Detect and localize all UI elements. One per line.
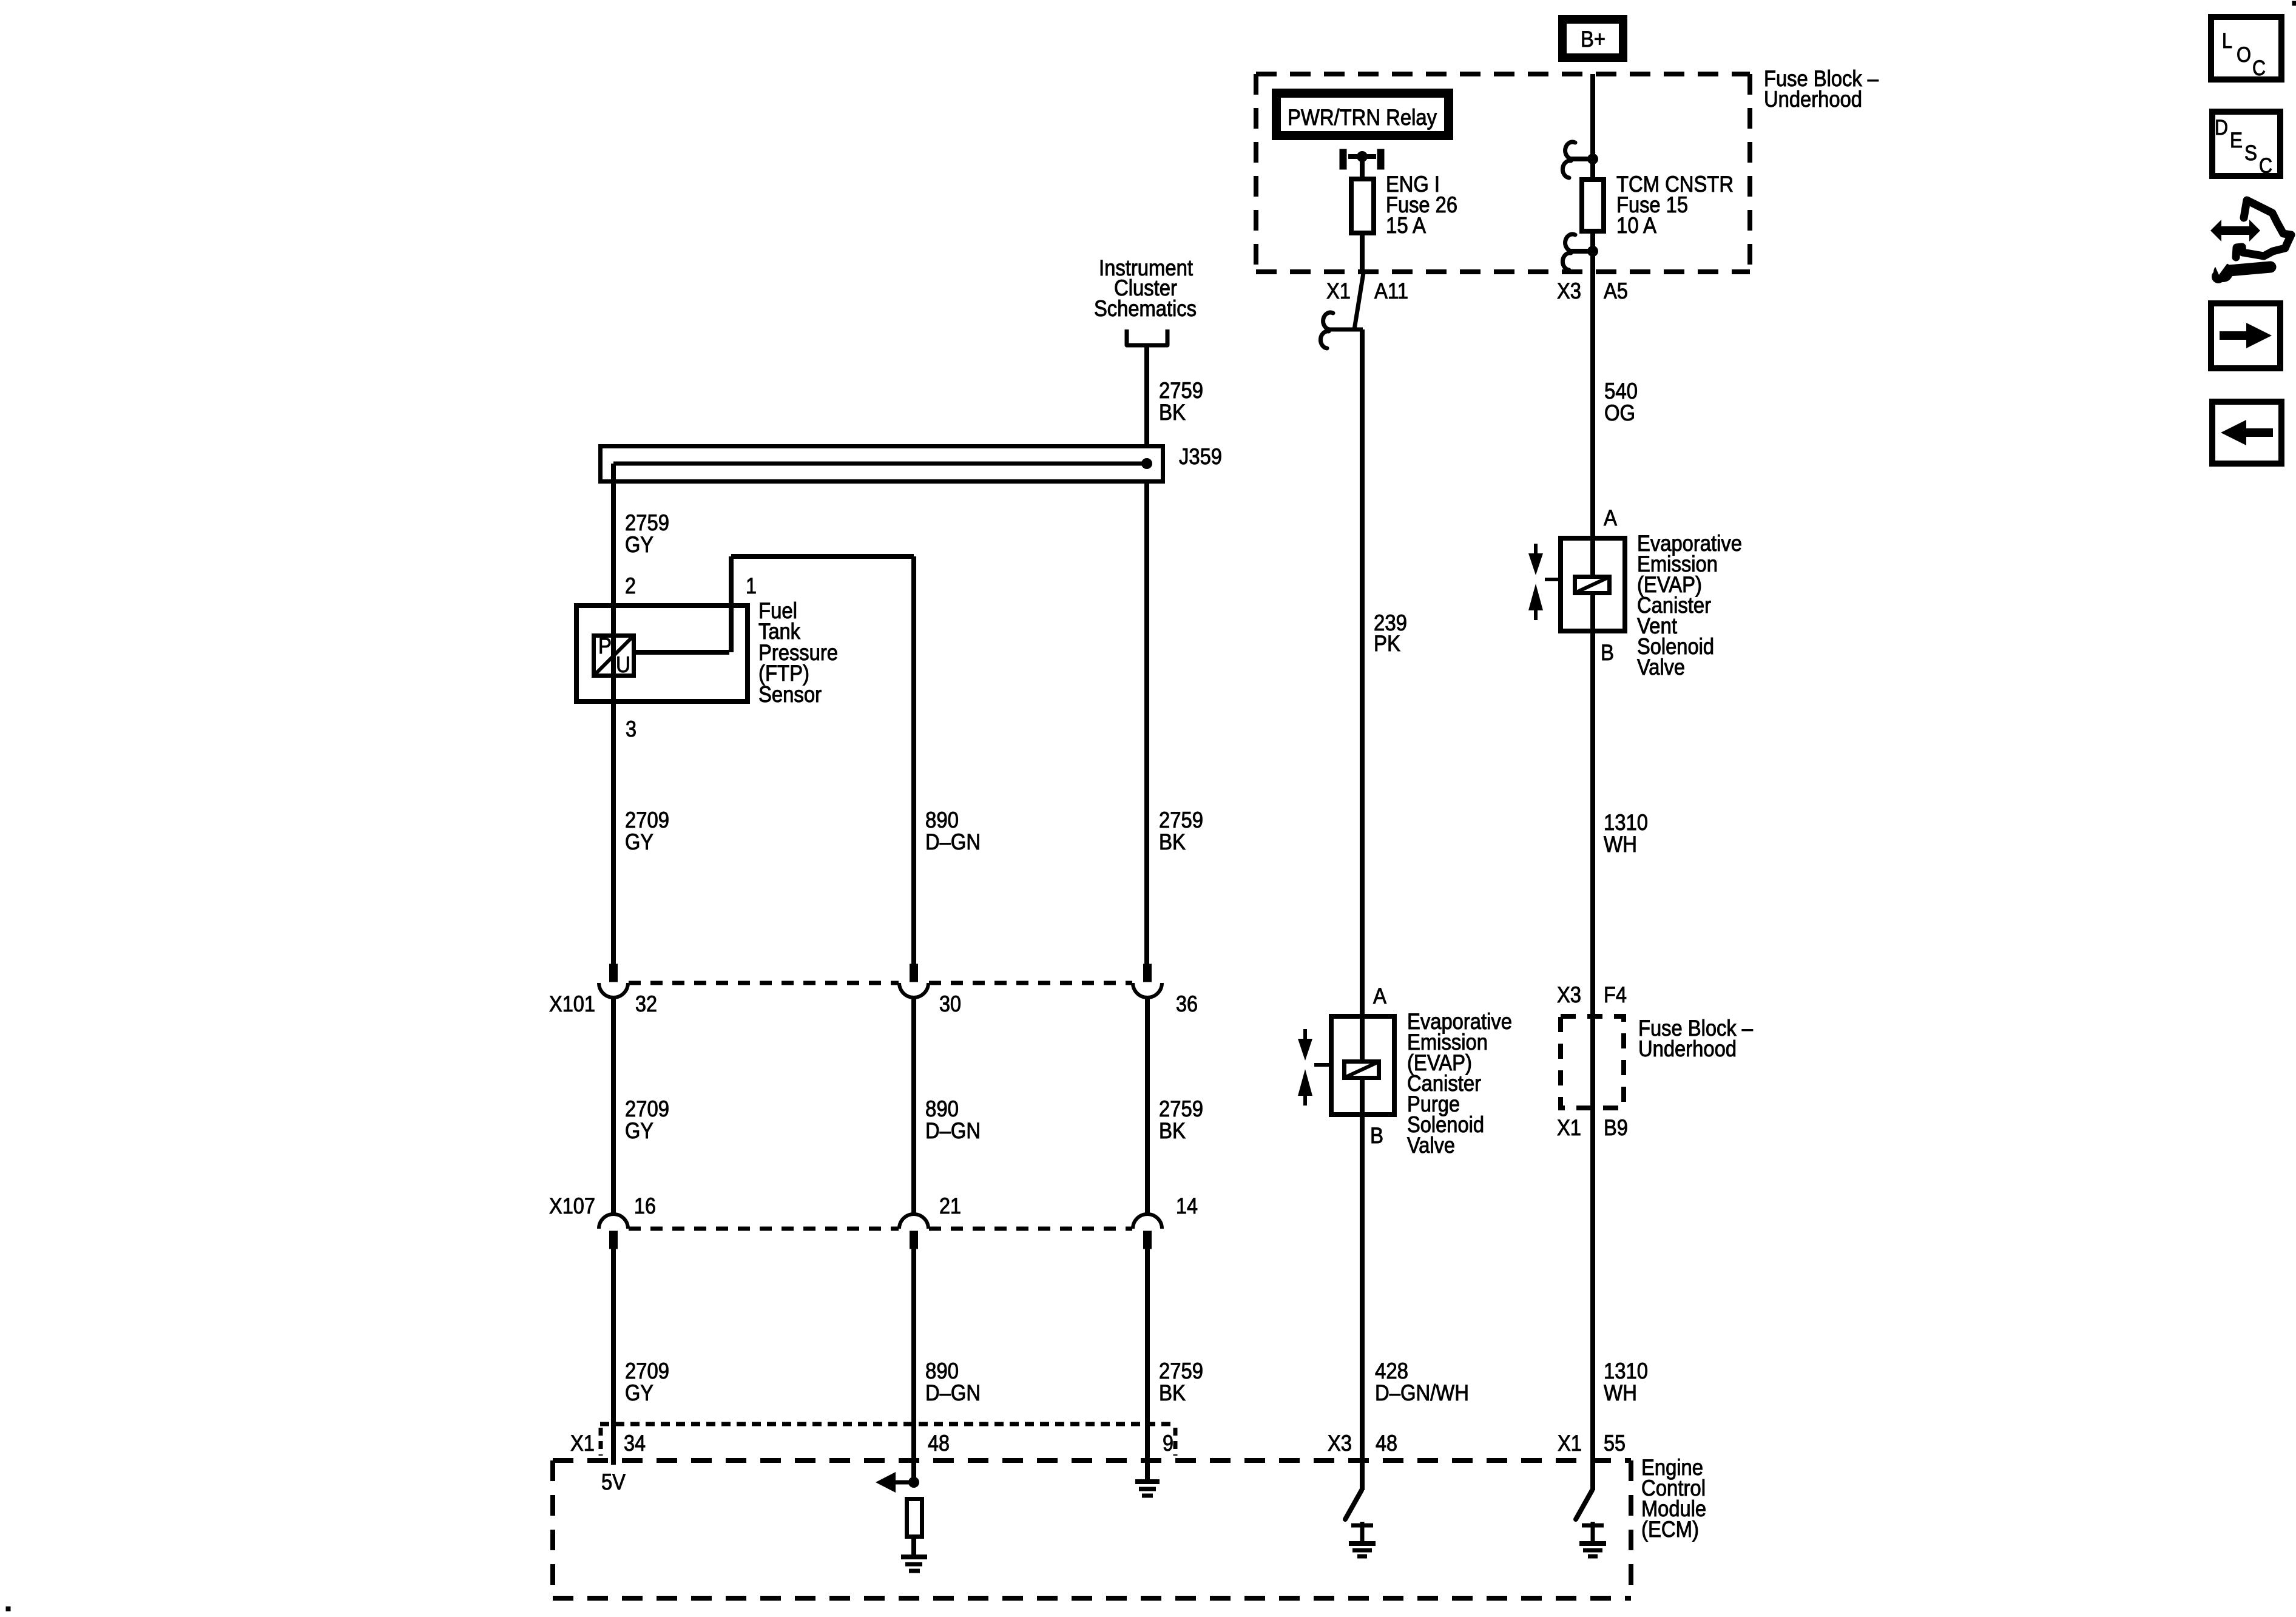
purge coil diagonal <box>1345 1062 1379 1078</box>
wire 890 D-GN down middle column <box>911 556 916 964</box>
svg-text:D–GN: D–GN <box>925 1118 981 1143</box>
wire 2759 BK from instrument cluster <box>1144 345 1149 447</box>
X101 connector pin at x=1506 <box>910 964 918 982</box>
svg-text:X101: X101 <box>549 991 595 1016</box>
svg-text:A: A <box>1604 505 1617 530</box>
page mark top right <box>2292 1 2296 5</box>
svg-text:36: 36 <box>1176 991 1198 1016</box>
svg-text:2759: 2759 <box>1159 1359 1203 1383</box>
svg-text:A: A <box>1373 984 1386 1008</box>
relay output terminal bracket <box>1340 149 1346 169</box>
svg-text:J359: J359 <box>1179 444 1222 469</box>
wire 1310 WH vent to fuse block F4 <box>1590 633 1595 1016</box>
arrow lead pin 48 <box>886 1480 914 1485</box>
terminal bar X1 A11 <box>1329 328 1363 332</box>
svg-text:E: E <box>2230 129 2243 152</box>
wire relay to fuse 26 <box>1360 157 1365 179</box>
svg-text:Schematics: Schematics <box>1094 296 1197 321</box>
ground purge driver <box>1349 1541 1376 1546</box>
svg-text:1: 1 <box>746 573 757 598</box>
wire 239 PK down to purge solenoid <box>1360 329 1365 1016</box>
svg-text:B9: B9 <box>1604 1115 1628 1140</box>
terminal hook upper X1 A11 <box>1323 312 1333 329</box>
junction dot pin 48 <box>908 1477 919 1488</box>
svg-text:2: 2 <box>625 573 636 598</box>
svg-text:GY: GY <box>625 1380 653 1405</box>
ECM dashed box bottom <box>553 1596 1631 1601</box>
junction dot fuse15 bottom <box>1587 246 1598 257</box>
ground stem purge driver <box>1360 1522 1365 1542</box>
X107 connector pin at x=1506 <box>899 1214 928 1229</box>
connector bracket to Instrument Cluster <box>1127 329 1167 345</box>
svg-text:X1: X1 <box>1326 279 1351 303</box>
svg-text:15 A: 15 A <box>1386 213 1426 238</box>
svg-text:C: C <box>2252 56 2266 80</box>
wire 890 D-GN to ECM pin 48 <box>911 1249 916 1482</box>
svg-text:16: 16 <box>634 1193 656 1218</box>
svg-text:2759: 2759 <box>1159 378 1203 403</box>
svg-text:BK: BK <box>1159 400 1186 425</box>
junction dot fuse15 top <box>1587 154 1598 164</box>
page mark bottom left <box>6 1607 10 1611</box>
svg-text:X1: X1 <box>1557 1115 1581 1140</box>
ECM dashed box right <box>1629 1460 1633 1598</box>
svg-text:3: 3 <box>626 717 636 741</box>
svg-text:B: B <box>1370 1123 1383 1148</box>
wire 2709 GY between connectors <box>611 998 616 1214</box>
svg-text:Valve: Valve <box>1407 1133 1455 1158</box>
X107 dashed connector line right span <box>929 1227 1132 1231</box>
X1 ECM connector dotted line <box>600 1422 1175 1426</box>
svg-text:D–GN: D–GN <box>925 829 981 854</box>
svg-text:14: 14 <box>1176 1193 1198 1218</box>
svg-text:X1: X1 <box>570 1431 595 1456</box>
X101 dashed connector line right span <box>929 981 1132 985</box>
Fuse Block dashed bottom <box>1256 269 1750 274</box>
svg-text:2759: 2759 <box>1159 1096 1203 1121</box>
svg-text:2759: 2759 <box>625 510 669 535</box>
svg-text:48: 48 <box>928 1431 950 1456</box>
svg-text:PWR/TRN Relay: PWR/TRN Relay <box>1288 105 1437 130</box>
svg-text:X107: X107 <box>549 1193 595 1218</box>
P/U diagonal <box>596 638 632 673</box>
vent valve symbol <box>1534 544 1538 553</box>
bus inner conductor <box>613 462 1147 466</box>
X101 dashed connector line left span <box>629 981 899 985</box>
wire 890 D-GN between connectors <box>911 998 916 1214</box>
svg-text:34: 34 <box>624 1431 646 1456</box>
wire 540 OG to vent solenoid <box>1590 272 1595 538</box>
svg-text:L: L <box>2222 29 2232 53</box>
svg-text:X1: X1 <box>1558 1431 1582 1456</box>
wire pin1 to P/U cell <box>636 650 729 655</box>
wire jog pin1 to 890 D-GN column <box>731 554 914 559</box>
EVAP canister purge solenoid box <box>1331 1016 1394 1115</box>
svg-text:D–GN/WH: D–GN/WH <box>1375 1380 1469 1405</box>
svg-text:D–GN: D–GN <box>925 1380 981 1405</box>
svg-text:Valve: Valve <box>1637 655 1685 680</box>
fuse ENG I Fuse 26 <box>1351 179 1374 233</box>
junction dot relay terminal <box>1357 151 1368 162</box>
svg-text:48: 48 <box>1376 1431 1397 1456</box>
svg-text:Underhood: Underhood <box>1764 87 1862 112</box>
svg-text:2759: 2759 <box>1159 808 1203 832</box>
svg-text:30: 30 <box>939 991 961 1016</box>
svg-text:WH: WH <box>1604 1380 1637 1405</box>
resistor in ECM <box>907 1499 922 1537</box>
Fuse Block Underhood dashed top <box>1256 72 1750 76</box>
svg-text:55: 55 <box>1604 1431 1626 1456</box>
X1 dotted end tick right <box>1173 1428 1178 1456</box>
purge solenoid coil <box>1345 1062 1379 1078</box>
X101 connector pin at x=1891 <box>1144 964 1152 982</box>
arrowhead pin 48 <box>876 1472 896 1493</box>
svg-text:X3: X3 <box>1557 279 1581 303</box>
X1 dotted end tick left <box>599 1428 603 1456</box>
X107 connector pin at x=1891 <box>1133 1214 1162 1229</box>
svg-text:D: D <box>2215 116 2228 140</box>
svg-text:O: O <box>2237 43 2251 67</box>
wire resistor to ground <box>911 1539 916 1555</box>
junction at J359 <box>1141 458 1152 469</box>
wire through small fuse block <box>1590 1016 1595 1110</box>
svg-text:1310: 1310 <box>1604 810 1648 835</box>
arrow right <box>2220 331 2246 340</box>
svg-text:(ECM): (ECM) <box>1641 1517 1699 1542</box>
fuse TCM CNSTR Fuse 15 <box>1582 180 1604 231</box>
svg-text:32: 32 <box>635 991 657 1016</box>
ground tick vent driver <box>1582 1524 1604 1528</box>
svg-text:2709: 2709 <box>625 1359 669 1383</box>
wire 2759 BK between connectors <box>1145 998 1150 1214</box>
icon box arrow right <box>2211 303 2280 368</box>
svg-text:B+: B+ <box>1581 27 1606 52</box>
svg-text:890: 890 <box>925 808 959 832</box>
wire fuse 26 to X1 A11 <box>1360 235 1365 273</box>
svg-text:C: C <box>2259 154 2272 178</box>
terminal hook upper fuse15 bottom <box>1565 234 1575 251</box>
driver switch blade pin 48 X3 <box>1345 1490 1362 1519</box>
B+ power feed box <box>1562 19 1623 58</box>
driver switch blade pin 55 X1 <box>1576 1490 1592 1519</box>
svg-text:1310: 1310 <box>1604 1359 1648 1383</box>
svg-text:540: 540 <box>1604 379 1638 403</box>
ground stem vent driver <box>1591 1522 1595 1542</box>
svg-text:BK: BK <box>1159 1380 1186 1405</box>
svg-text:890: 890 <box>925 1096 959 1121</box>
svg-text:A11: A11 <box>1374 279 1408 303</box>
FTP sensor outer box <box>576 606 748 701</box>
svg-text:428: 428 <box>1375 1359 1408 1383</box>
wire jog at X1 A11 <box>1354 273 1363 329</box>
svg-text:PK: PK <box>1374 631 1400 656</box>
X101 connector pin at x=1011 <box>610 964 618 982</box>
ECM dashed box left <box>550 1460 555 1598</box>
Fuse Block dashed left <box>1254 74 1258 272</box>
X107 dashed connector line left span <box>629 1227 899 1231</box>
terminal bar fuse15 bottom <box>1570 249 1590 254</box>
wire through purge solenoid <box>1360 1016 1365 1117</box>
ground tick purge driver <box>1351 1524 1373 1528</box>
svg-text:F4: F4 <box>1604 982 1627 1007</box>
vent solenoid coil <box>1575 577 1610 593</box>
svg-text:OG: OG <box>1604 400 1635 425</box>
svg-text:U: U <box>616 652 630 677</box>
svg-text:S: S <box>2244 141 2257 165</box>
wrench <box>2229 267 2271 271</box>
terminal bar fuse15 top <box>1570 157 1590 161</box>
wire 1310 WH to ECM pin 55 <box>1590 1110 1595 1490</box>
svg-text:GY: GY <box>625 829 653 854</box>
terminal hook lower X1 A11 <box>1320 331 1329 348</box>
ground pin 9 <box>1135 1479 1160 1484</box>
svg-text:2709: 2709 <box>625 808 669 832</box>
terminal hook upper fuse15 top <box>1565 142 1575 159</box>
ground vent driver <box>1579 1541 1606 1546</box>
svg-text:Sensor: Sensor <box>758 682 822 707</box>
Fuse Block Underhood small dashed box <box>1561 1016 1624 1108</box>
svg-text:21: 21 <box>939 1193 961 1218</box>
icon car with double arrow and wrench <box>2216 226 2255 235</box>
icon box arrow left <box>2212 402 2281 464</box>
ECM dashed box top <box>553 1458 1631 1463</box>
EVAP canister vent solenoid box <box>1561 538 1625 631</box>
svg-text:A5: A5 <box>1604 279 1628 303</box>
arrow left <box>2246 428 2273 437</box>
svg-text:B: B <box>1601 640 1614 665</box>
svg-text:9: 9 <box>1163 1431 1173 1456</box>
svg-text:890: 890 <box>925 1359 959 1383</box>
purge valve symbol <box>1303 1029 1307 1039</box>
wire through vent solenoid <box>1590 538 1595 633</box>
wire 428 D-GN/WH purge to ECM <box>1360 1117 1365 1490</box>
svg-text:5V: 5V <box>601 1470 626 1494</box>
svg-text:BK: BK <box>1159 1118 1186 1143</box>
vent coil diagonal <box>1575 577 1609 593</box>
svg-text:BK: BK <box>1159 829 1186 854</box>
svg-text:10 A: 10 A <box>1616 213 1656 238</box>
wire B+ to fuse 15 <box>1590 74 1595 180</box>
svg-text:WH: WH <box>1604 832 1637 857</box>
icon box LOC <box>2211 17 2281 79</box>
wire 2709 GY to ECM pin 34 <box>611 1249 616 1465</box>
svg-text:GY: GY <box>625 1118 653 1143</box>
svg-text:2709: 2709 <box>625 1096 669 1121</box>
wire 2759 GY / 2709 GY down left column <box>611 464 616 964</box>
terminal hook lower fuse15 top <box>1562 161 1571 178</box>
wire 2759 BK down to X101 pin 36 <box>1144 484 1149 964</box>
terminal hook lower fuse15 bottom <box>1562 253 1571 270</box>
svg-text:Underhood: Underhood <box>1638 1036 1737 1061</box>
wire pin1 inside FTP sensor <box>729 556 734 652</box>
PWR/TRN Relay box <box>1277 93 1449 136</box>
svg-text:X3: X3 <box>1557 982 1581 1007</box>
splice J359 bus outer box <box>601 447 1163 482</box>
wire fuse 15 to X3 A5 <box>1590 234 1595 272</box>
svg-text:GY: GY <box>625 532 653 557</box>
svg-text:X3: X3 <box>1328 1431 1352 1456</box>
wire 2759 BK to ECM pin 9 <box>1145 1249 1150 1480</box>
svg-text:P: P <box>598 633 612 658</box>
P/U transducer cell <box>594 636 634 676</box>
Fuse Block dashed right <box>1747 74 1752 272</box>
ground under resistor <box>901 1555 927 1559</box>
icon box DESC <box>2212 112 2280 176</box>
X107 connector pin at x=1011 <box>599 1214 628 1229</box>
